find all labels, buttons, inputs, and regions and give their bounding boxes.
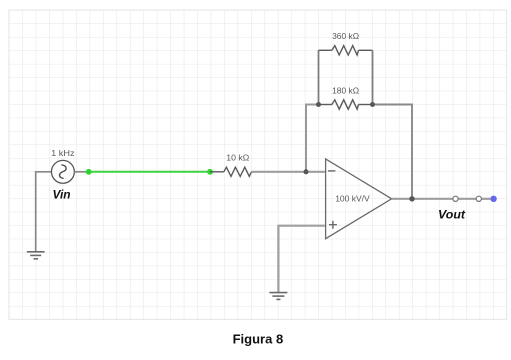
wire plus input to ground GND2 (278, 226, 325, 293)
terminal circle 2 (476, 196, 481, 201)
wire from AC source left terminal down to ground GND1 (36, 172, 52, 252)
wire 360k loop right leg (359, 49, 373, 51)
blue end node (490, 196, 496, 202)
wire resistor 10k to inverting input (252, 171, 325, 173)
resistor R 10 kOhm (224, 167, 252, 176)
wire green net Vin (89, 171, 210, 173)
svg-text:10 kΩ: 10 kΩ (226, 153, 249, 163)
wire feedback right leg to output (359, 104, 373, 106)
wire between terminal circles (458, 198, 476, 200)
junction node right of 180k (370, 102, 375, 107)
junction node at inverting input (304, 169, 309, 174)
lead 360k left (319, 49, 332, 51)
op-amp U1 (326, 159, 392, 239)
wire feedback left leg (306, 105, 319, 172)
wire terminal 2 to end node (481, 198, 490, 200)
svg-text:Vin: Vin (53, 188, 71, 202)
node green junction left (86, 169, 92, 175)
terminal circle 1 (453, 196, 458, 201)
wire 360k loop left leg (318, 50, 320, 104)
wire 180k left stub (319, 104, 332, 106)
junction node left of 180k (316, 102, 321, 107)
resistor R 180 kOhm (332, 100, 359, 109)
resistor R 360 kOhm (332, 46, 359, 55)
svg-text:360 kΩ: 360 kΩ (332, 31, 359, 41)
wire 360k loop right leg vertical (372, 50, 374, 104)
wire output to terminals (392, 198, 453, 200)
svg-text:1 kHz: 1 kHz (51, 148, 75, 158)
wire feedback right to output (373, 105, 413, 199)
svg-text:Vout: Vout (438, 208, 466, 222)
wire from AC source right terminal (74, 171, 88, 173)
ground GND1 (27, 252, 45, 259)
ground GND2 (269, 293, 287, 300)
svg-text:100 kV/V: 100 kV/V (335, 193, 370, 203)
wire green node to resistor 10k (210, 171, 224, 173)
node green junction right (207, 169, 213, 175)
svg-text:Figura 8: Figura 8 (233, 332, 284, 347)
ac source V1 (51, 160, 74, 183)
junction node at output (409, 196, 414, 201)
svg-text:180 kΩ: 180 kΩ (332, 86, 359, 96)
